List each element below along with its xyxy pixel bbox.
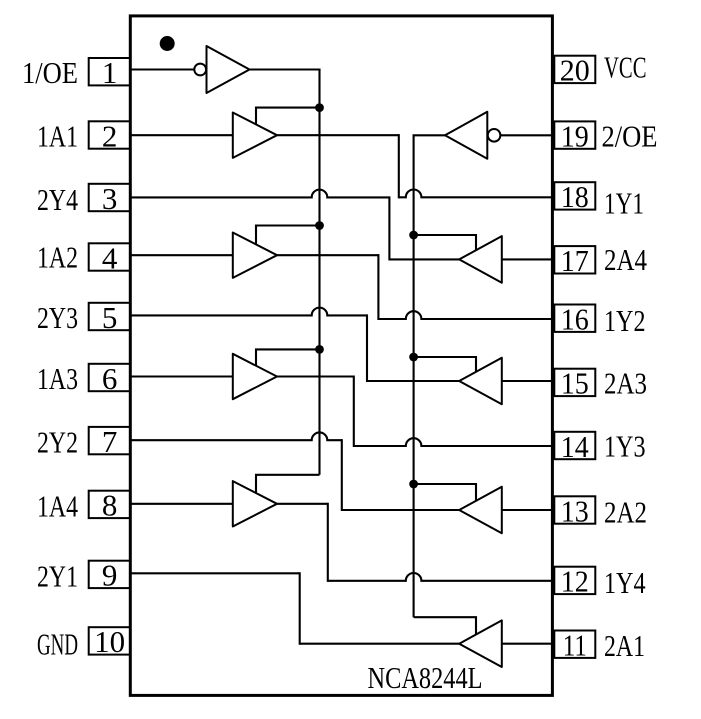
svg-text:2Y1: 2Y1 — [37, 559, 78, 594]
svg-text:NCA8244L: NCA8244L — [368, 660, 483, 695]
inverter U2 (2/OE) bubble — [488, 129, 501, 142]
pin 18 box — [554, 182, 595, 209]
junction dot G2 — [409, 353, 418, 362]
svg-text:2A4: 2A4 — [604, 242, 647, 277]
junction dot G1 — [315, 221, 324, 230]
svg-text:2Y3: 2Y3 — [37, 300, 78, 335]
svg-text:2: 2 — [102, 118, 118, 153]
svg-text:1Y4: 1Y4 — [604, 565, 646, 600]
wire U10 buffer 2A1->2Y1 output to left pin — [130, 572, 299, 574]
wire U3 buffer 1A1->1Y1 output to right pin (hop over G2) — [399, 190, 553, 198]
IC body outline — [130, 16, 552, 696]
wire G2 terminal to 2A1 buffer — [414, 617, 476, 634]
pin 10 box — [89, 627, 131, 654]
U3 buffer 1A1->1Y1 — [233, 113, 277, 158]
wire input pin 15 — [502, 380, 553, 382]
U8 buffer 2A3->2Y3 — [459, 358, 502, 405]
svg-text:1A3: 1A3 — [37, 361, 78, 396]
wire G1 branch stub — [256, 108, 320, 125]
pin 5 box — [89, 303, 131, 330]
U5 buffer 1A3->1Y3 — [233, 354, 277, 399]
svg-text:8: 8 — [102, 488, 118, 523]
wire U4 buffer 1A2->1Y2 output to right pin (hop over G2) — [378, 311, 552, 319]
wire U5 buffer 1A3->1Y3 output to right pin (hop over G2) — [354, 438, 553, 446]
junction dot G2 — [409, 480, 418, 489]
svg-text:18: 18 — [561, 179, 589, 214]
wire U4 buffer 1A2->1Y2 output horizontal — [277, 254, 378, 256]
svg-text:2Y2: 2Y2 — [37, 425, 78, 460]
pin 12 box — [554, 567, 595, 594]
U6 buffer 1A4->1Y4 — [233, 481, 277, 526]
svg-text:16: 16 — [561, 302, 589, 337]
wire G1 terminal to 1A4 buffer — [256, 475, 320, 492]
wire U6 buffer 1A4->1Y4 output to right pin (hop over G2) — [328, 573, 553, 581]
svg-text:2A2: 2A2 — [604, 495, 647, 530]
wire U4 buffer 1A2->1Y2 output vertical — [377, 254, 379, 320]
pin-1 marker dot — [160, 36, 175, 51]
svg-text:VCC: VCC — [604, 50, 647, 85]
pin 1 box — [89, 58, 131, 85]
U9 buffer 2A2->2Y2 — [459, 487, 502, 534]
svg-text:GND: GND — [37, 626, 78, 661]
svg-text:20: 20 — [560, 53, 590, 88]
wire input pin 13 — [502, 509, 553, 511]
wire input pin 2 — [130, 134, 233, 136]
wire U9 buffer 2A2->2Y2 output to left pin (hop over G1) — [130, 432, 341, 440]
svg-text:11: 11 — [563, 628, 587, 663]
wire input pin 11 — [502, 643, 553, 645]
wire U10 buffer 2A1->2Y1 output vertical — [299, 572, 301, 645]
svg-text:10: 10 — [94, 624, 125, 659]
svg-text:13: 13 — [561, 493, 589, 528]
svg-text:5: 5 — [102, 300, 118, 335]
svg-text:1Y2: 1Y2 — [604, 303, 646, 338]
svg-text:1Y3: 1Y3 — [604, 428, 646, 463]
wire G1 branch stub — [256, 226, 320, 245]
svg-text:19: 19 — [561, 118, 589, 153]
wire input pin 8 — [130, 503, 233, 505]
svg-text:2A1: 2A1 — [604, 628, 645, 663]
wire input pin 4 — [130, 254, 233, 256]
wire U10 buffer 2A1->2Y1 output horizontal — [300, 643, 460, 645]
pin 8 box — [89, 491, 131, 518]
inverter U1 (1/OE) bubble — [194, 64, 206, 76]
pin 15 box — [554, 369, 595, 396]
svg-text:1A4: 1A4 — [37, 488, 78, 523]
svg-text:12: 12 — [561, 564, 589, 599]
wire input pin 6 — [130, 375, 233, 377]
wire U3 buffer 1A1->1Y1 output vertical — [398, 134, 400, 198]
wire G2 branch stub — [414, 484, 476, 501]
wire U1 output to enable net G1 — [250, 68, 321, 70]
inverter U2 (2/OE) triangle — [445, 112, 487, 159]
svg-text:3: 3 — [102, 181, 118, 216]
wire U6 buffer 1A4->1Y4 output vertical — [327, 503, 329, 582]
pin 2 box — [89, 121, 131, 148]
junction dot G1 — [315, 345, 324, 354]
wire enable net G2 vertical — [413, 135, 415, 617]
svg-text:7: 7 — [102, 424, 118, 459]
pin 9 box — [89, 561, 131, 588]
wire enable net G1 vertical — [318, 70, 320, 475]
pin 17 box — [554, 246, 595, 273]
wire U7 buffer 2A4->2Y4 output to left pin (hop over G1) — [130, 190, 389, 198]
pin 20 box — [554, 56, 595, 83]
wire G2 branch stub — [414, 235, 476, 250]
wire pin1 to inverter — [130, 68, 194, 70]
wire U8 buffer 2A3->2Y3 output vertical — [366, 314, 368, 382]
wire U6 buffer 1A4->1Y4 output horizontal — [277, 503, 328, 505]
svg-text:1A1: 1A1 — [37, 118, 78, 153]
wire G1 branch stub — [256, 349, 320, 366]
svg-text:17: 17 — [561, 243, 589, 278]
svg-text:1Y1: 1Y1 — [604, 186, 644, 221]
wire pin19 to inverter bubble — [500, 134, 552, 136]
svg-text:1/OE: 1/OE — [22, 55, 78, 90]
junction dot G2 — [409, 231, 418, 240]
wire U5 buffer 1A3->1Y3 output vertical — [353, 375, 355, 447]
svg-text:2/OE: 2/OE — [602, 119, 658, 154]
pin 4 box — [89, 243, 131, 270]
U4 buffer 1A2->1Y2 — [233, 233, 277, 278]
wire U8 buffer 2A3->2Y3 output horizontal — [367, 380, 459, 382]
svg-text:1A2: 1A2 — [37, 240, 78, 275]
wire U9 buffer 2A2->2Y2 output vertical — [341, 439, 343, 511]
wire U3 buffer 1A1->1Y1 output horizontal — [277, 134, 399, 136]
inverter U1 (1/OE) triangle — [207, 46, 250, 93]
U10 buffer 2A1->2Y1 — [459, 620, 502, 667]
wire G2 branch stub — [414, 357, 476, 372]
pin 13 box — [554, 496, 595, 523]
wire U7 buffer 2A4->2Y4 output horizontal — [389, 258, 459, 260]
wire U2 output to enable net G2 — [413, 134, 445, 136]
wire input pin 17 — [502, 258, 553, 260]
wire U5 buffer 1A3->1Y3 output horizontal — [277, 375, 354, 377]
wire U7 buffer 2A4->2Y4 output vertical — [388, 196, 390, 260]
svg-text:14: 14 — [561, 429, 589, 464]
svg-text:2A3: 2A3 — [604, 366, 647, 401]
junction dot G1 — [315, 103, 324, 112]
svg-text:9: 9 — [102, 558, 118, 593]
pin 11 box — [554, 631, 595, 658]
svg-text:2Y4: 2Y4 — [37, 182, 78, 217]
U7 buffer 2A4->2Y4 — [459, 236, 502, 283]
svg-text:1: 1 — [102, 55, 118, 90]
wire U8 buffer 2A3->2Y3 output to left pin (hop over G1) — [130, 308, 367, 316]
svg-text:4: 4 — [102, 240, 118, 275]
pin 3 box — [89, 184, 131, 211]
pin 6 box — [89, 364, 131, 391]
pin 19 box — [554, 121, 595, 148]
wire U9 buffer 2A2->2Y2 output horizontal — [342, 509, 459, 511]
svg-text:6: 6 — [102, 361, 118, 396]
pin 14 box — [554, 432, 595, 459]
svg-text:15: 15 — [561, 366, 589, 401]
pin 16 box — [554, 305, 595, 332]
pin 7 box — [89, 427, 131, 454]
